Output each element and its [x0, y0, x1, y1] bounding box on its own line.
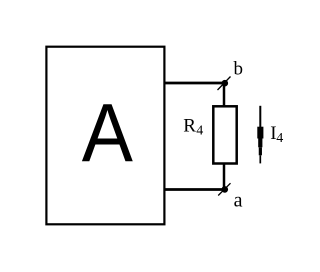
- resistor R4: [213, 106, 236, 163]
- wire lead resistor bottom to node a: [223, 163, 226, 190]
- wire top (box to node b): [164, 82, 225, 85]
- label R4: [183, 115, 203, 138]
- two-terminal network box A: [46, 47, 164, 225]
- svg-text:a: a: [234, 190, 243, 212]
- svg-text:4: 4: [276, 131, 283, 146]
- wire lead node b to resistor top: [223, 83, 226, 107]
- svg-text:A: A: [82, 86, 133, 178]
- node b: [218, 77, 231, 91]
- svg-text:R: R: [183, 115, 196, 136]
- svg-text:4: 4: [196, 124, 203, 139]
- node a: [218, 183, 230, 195]
- svg-text:b: b: [234, 59, 244, 80]
- wire bottom (box to node a): [164, 188, 225, 191]
- current arrow I4: [257, 106, 263, 164]
- label A: [82, 86, 133, 178]
- label I4: [270, 123, 283, 146]
